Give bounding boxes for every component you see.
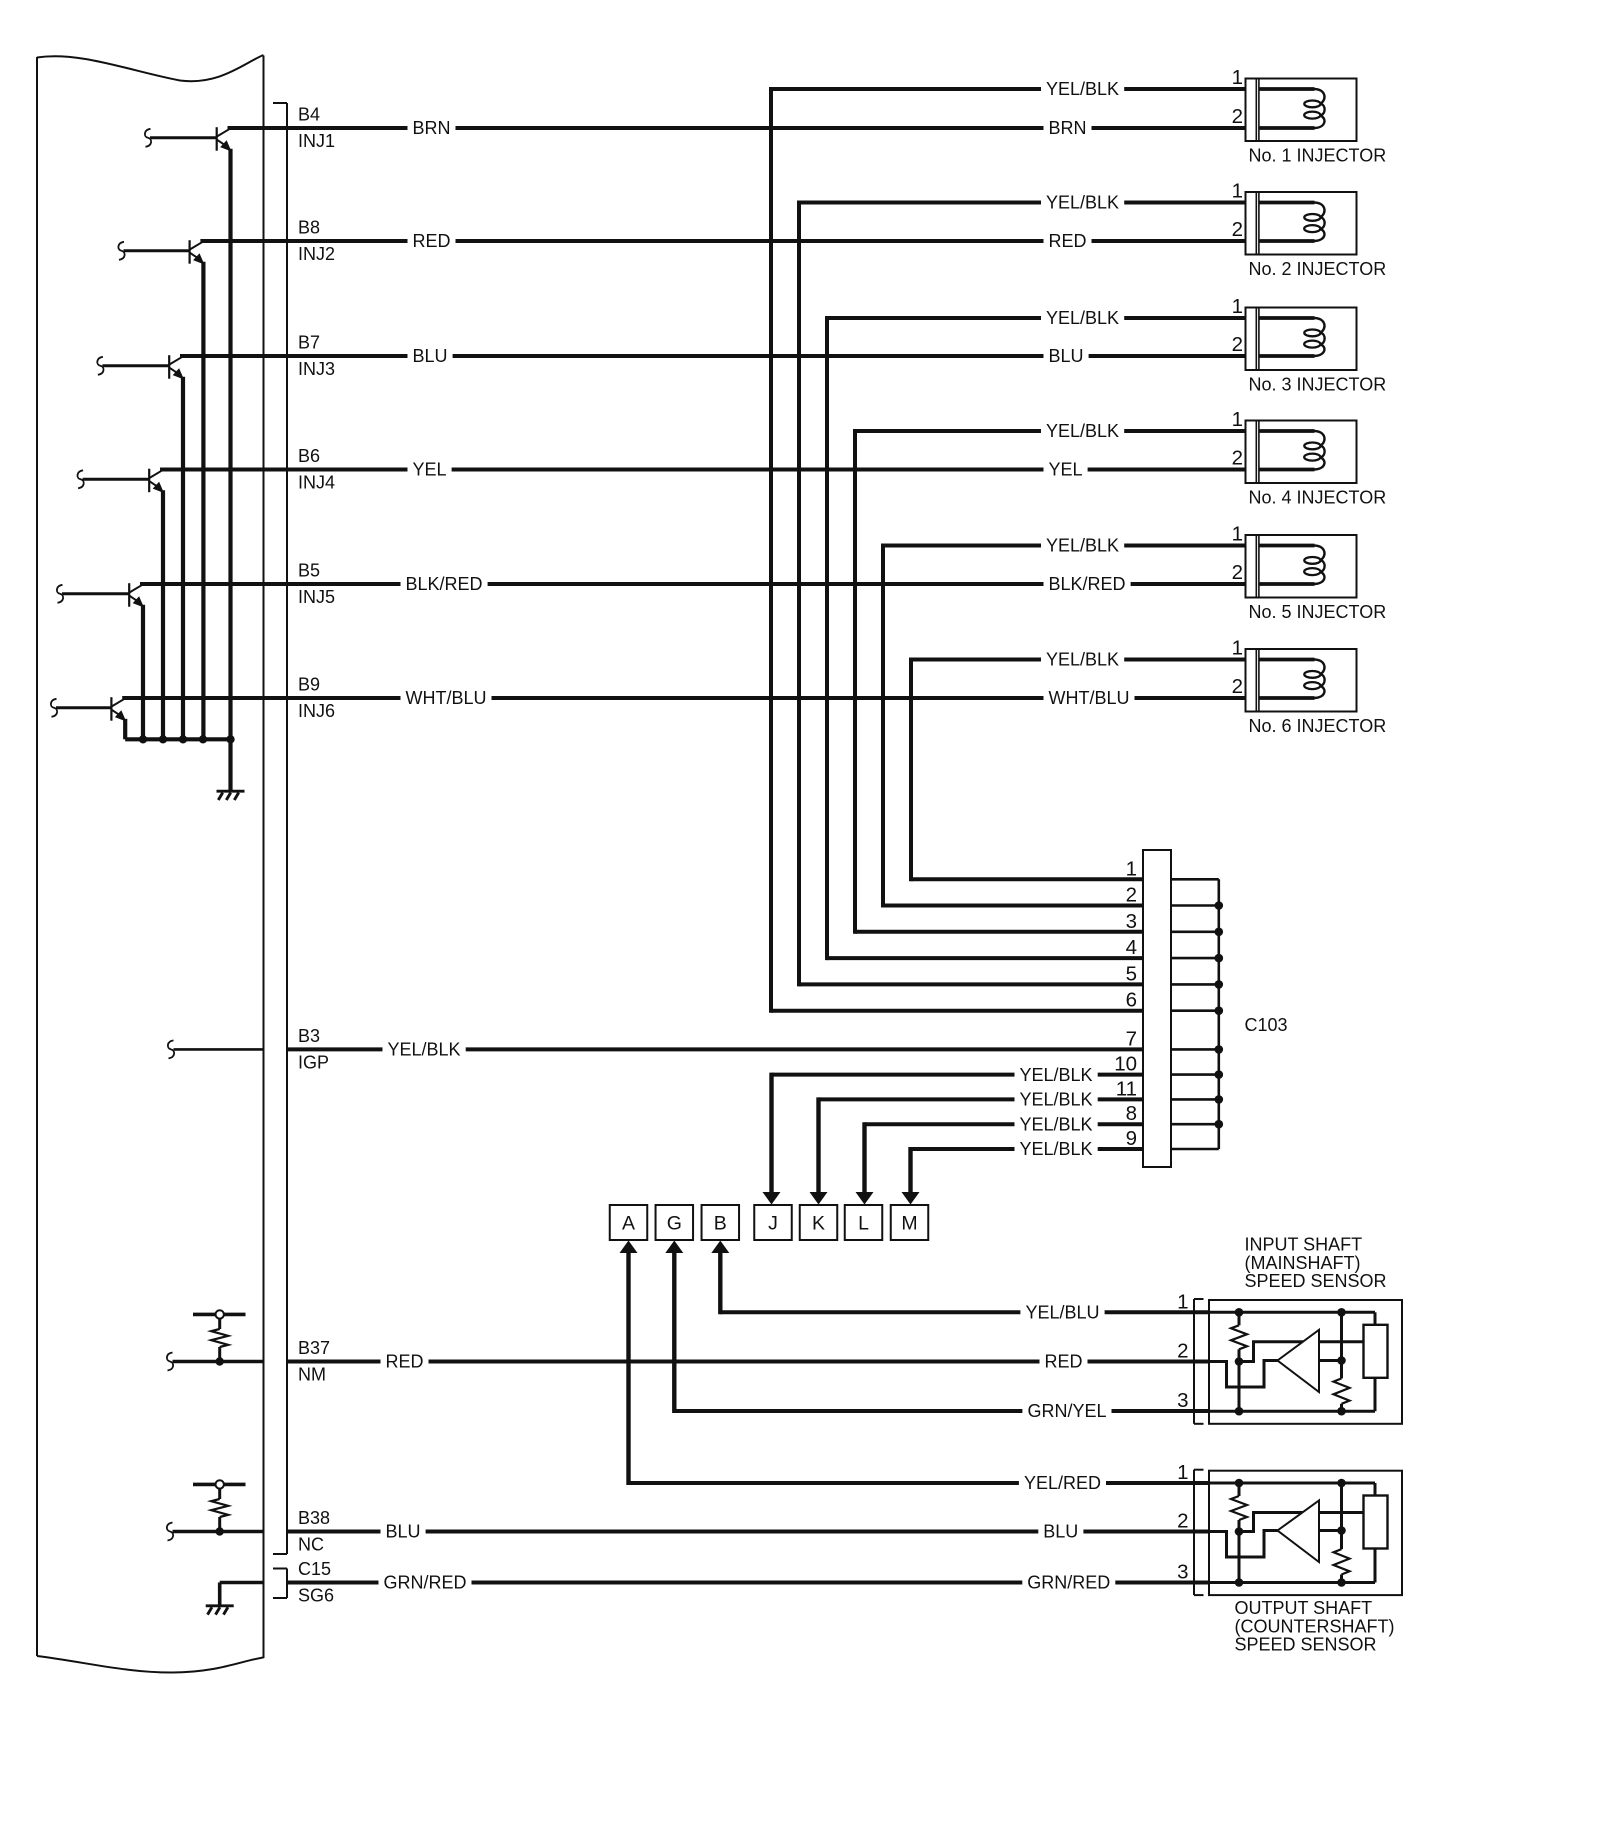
svg-text:INJ3: INJ3 xyxy=(298,359,335,379)
svg-text:1: 1 xyxy=(1232,295,1243,318)
wire B37 RED (ECU pin B37 to input shaft speed sensor pin 2) xyxy=(287,1351,1209,1372)
svg-text:WHT/BLU: WHT/BLU xyxy=(406,688,487,708)
wire YEL/BLK (No.3 injector pin 1 to C103 pin 4) xyxy=(827,308,1246,961)
pin label B4/INJ1 xyxy=(298,105,335,152)
svg-text:INJ5: INJ5 xyxy=(298,587,335,607)
input shaft sensor bias resistor (left zigzag) xyxy=(1231,1312,1247,1411)
svg-text:BLK/RED: BLK/RED xyxy=(1049,574,1126,594)
svg-text:2: 2 xyxy=(1232,105,1243,128)
svg-text:IGP: IGP xyxy=(298,1052,329,1072)
wire SG6 inside ECU xyxy=(220,1581,264,1585)
ECU connector C bracket (pin C15) xyxy=(273,1569,287,1599)
pin numbers injector No.6 xyxy=(1232,637,1243,699)
svg-text:YEL/RED: YEL/RED xyxy=(1024,1473,1101,1493)
svg-text:YEL/BLK: YEL/BLK xyxy=(1046,193,1119,213)
svg-text:5: 5 xyxy=(1126,962,1137,985)
svg-text:No. 5 INJECTOR: No. 5 INJECTOR xyxy=(1249,602,1387,622)
pin label C15/SG6 xyxy=(298,1559,334,1606)
injector No.1 (solenoid coil) xyxy=(1246,79,1357,142)
svg-text:BRN: BRN xyxy=(1049,118,1087,138)
junction dots on emitter bus xyxy=(139,735,235,743)
svg-text:3: 3 xyxy=(1126,910,1137,933)
svg-text:YEL: YEL xyxy=(413,460,447,480)
transistor Q3 (injector 3 driver, NPN) xyxy=(97,355,184,739)
svg-text:B38: B38 xyxy=(298,1508,330,1528)
input shaft sensor junction dots xyxy=(1235,1308,1346,1415)
label INPUT SHAFT (MAINSHAFT) SPEED SENSOR xyxy=(1245,1235,1387,1291)
label No. 3 INJECTOR xyxy=(1249,375,1387,395)
output shaft sensor amplifier (op-amp triangle) xyxy=(1278,1501,1320,1563)
output shaft sensor connector bracket xyxy=(1194,1470,1204,1595)
svg-text:J: J xyxy=(768,1213,778,1235)
node A (off-page connector box) xyxy=(610,1205,648,1240)
ECU control module body (partial outline, torn edges) xyxy=(37,55,264,1673)
svg-text:INJ1: INJ1 xyxy=(298,131,335,151)
input shaft sensor connector bracket xyxy=(1194,1299,1204,1424)
svg-text:2: 2 xyxy=(1232,675,1243,698)
pin label B9/INJ6 xyxy=(298,675,335,722)
svg-text:SPEED SENSOR: SPEED SENSOR xyxy=(1235,1635,1377,1655)
pin label B5/INJ5 xyxy=(298,561,335,608)
wire GRN/YEL (node G to input shaft speed sensor pin 3) xyxy=(665,1241,1209,1422)
svg-text:YEL/BLK: YEL/BLK xyxy=(1046,421,1119,441)
svg-text:BLU: BLU xyxy=(1043,1522,1078,1542)
svg-text:YEL/BLK: YEL/BLK xyxy=(1046,650,1119,670)
svg-text:RED: RED xyxy=(386,1352,424,1372)
wire B4 BRN (ECU pin B4 to No.1 injector pin 2) xyxy=(228,118,1246,139)
svg-text:GRN/YEL: GRN/YEL xyxy=(1027,1401,1106,1421)
svg-text:No. 6 INJECTOR: No. 6 INJECTOR xyxy=(1249,716,1387,736)
svg-text:OUTPUT SHAFT: OUTPUT SHAFT xyxy=(1235,1598,1373,1618)
wire IGP inside ECU (with break symbol) xyxy=(168,1040,264,1058)
svg-text:BLU: BLU xyxy=(413,346,448,366)
wire C15 GRN/RED (ECU pin C15 to output shaft speed sensor pin 3) xyxy=(287,1572,1209,1593)
injector No.2 (solenoid coil) xyxy=(1246,192,1357,255)
label No. 5 INJECTOR xyxy=(1249,602,1387,622)
injector No.4 (solenoid coil) xyxy=(1246,421,1357,484)
svg-text:BRN: BRN xyxy=(413,118,451,138)
svg-text:BLU: BLU xyxy=(1049,346,1084,366)
svg-text:11: 11 xyxy=(1116,1077,1137,1100)
pin numbers C103 xyxy=(1114,857,1137,1150)
svg-text:SPEED SENSOR: SPEED SENSOR xyxy=(1245,1271,1387,1291)
input shaft speed sensor body xyxy=(1209,1300,1402,1424)
pin numbers injector No.4 xyxy=(1232,408,1243,470)
wire B5 BLK/RED (ECU pin B5 to No.5 injector pin 2) xyxy=(140,574,1246,595)
label No. 2 INJECTOR xyxy=(1249,259,1387,279)
svg-text:YEL: YEL xyxy=(1049,460,1083,480)
svg-text:SG6: SG6 xyxy=(298,1586,334,1606)
svg-text:YEL/BLK: YEL/BLK xyxy=(1020,1114,1093,1134)
svg-text:M: M xyxy=(901,1213,917,1235)
wire NC inside ECU (with break symbol) xyxy=(167,1523,264,1541)
svg-text:YEL/BLK: YEL/BLK xyxy=(1046,308,1119,328)
transistor Q2 (injector 2 driver, NPN) xyxy=(118,240,204,739)
transistor Q4 (injector 4 driver, NPN) xyxy=(77,469,164,740)
svg-text:1: 1 xyxy=(1232,408,1243,431)
input shaft sensor pin numbers xyxy=(1177,1290,1188,1412)
svg-text:INJ2: INJ2 xyxy=(298,244,335,264)
wire YEL/BLK (No.1 injector pin 1 to C103 pin 6) xyxy=(771,79,1246,1013)
svg-text:B7: B7 xyxy=(298,333,320,353)
svg-text:B37: B37 xyxy=(298,1338,330,1358)
junction dots on C103 bus xyxy=(1215,901,1224,1128)
svg-text:BLU: BLU xyxy=(386,1522,421,1542)
svg-text:No. 3 INJECTOR: No. 3 INJECTOR xyxy=(1249,375,1387,395)
svg-text:YEL/BLK: YEL/BLK xyxy=(388,1040,461,1060)
svg-text:YEL/BLK: YEL/BLK xyxy=(1046,79,1119,99)
transistor Q5 (injector 5 driver, NPN) xyxy=(57,583,144,739)
svg-text:K: K xyxy=(812,1213,825,1235)
svg-text:B6: B6 xyxy=(298,446,320,466)
pin numbers injector No.1 xyxy=(1232,66,1243,128)
wire B38 BLU (ECU pin B38 to output shaft speed sensor pin 2) xyxy=(287,1521,1209,1542)
output shaft sensor internal supply/ground wires xyxy=(1209,1483,1375,1583)
input shaft sensor amplifier input wire (pin 2 path) xyxy=(1209,1361,1278,1388)
svg-text:6: 6 xyxy=(1126,989,1137,1012)
wire C103 common bus vertical xyxy=(1218,879,1221,1149)
svg-text:2: 2 xyxy=(1126,884,1137,907)
svg-text:YEL/BLK: YEL/BLK xyxy=(1020,1090,1093,1110)
svg-text:2: 2 xyxy=(1232,561,1243,584)
label C103 xyxy=(1245,1015,1288,1035)
injector No.6 (solenoid coil) xyxy=(1246,649,1357,712)
svg-text:4: 4 xyxy=(1126,936,1137,959)
pin label B8/INJ2 xyxy=(298,218,335,265)
resistor (ECU pull-up on NC) with supply tick xyxy=(193,1480,246,1536)
svg-text:2: 2 xyxy=(1232,333,1243,356)
node L (off-page connector box) xyxy=(845,1205,883,1240)
wire B7 BLU (ECU pin B7 to No.3 injector pin 2) xyxy=(180,346,1246,367)
svg-text:INPUT SHAFT: INPUT SHAFT xyxy=(1245,1235,1363,1255)
svg-text:C103: C103 xyxy=(1245,1015,1288,1035)
wire YEL/BLK (No.5 injector pin 1 to C103 pin 2) xyxy=(883,535,1246,908)
output shaft sensor load resistor (box symbol) xyxy=(1364,1496,1388,1549)
svg-text:3: 3 xyxy=(1177,1389,1188,1412)
resistor (ECU pull-up on NM) with supply tick xyxy=(193,1310,246,1366)
svg-text:B3: B3 xyxy=(298,1026,320,1046)
pin label B3/IGP xyxy=(298,1026,329,1073)
svg-text:NM: NM xyxy=(298,1365,326,1385)
ECU connector B bracket (pins B3-B38) xyxy=(273,103,287,1554)
svg-text:YEL/BLK: YEL/BLK xyxy=(1046,536,1119,556)
input shaft sensor internal supply/ground wires xyxy=(1209,1312,1375,1411)
injector No.5 (solenoid coil) xyxy=(1246,535,1357,598)
svg-text:C15: C15 xyxy=(298,1559,331,1579)
svg-text:GRN/RED: GRN/RED xyxy=(384,1573,467,1593)
pin label B6/INJ4 xyxy=(298,446,335,493)
svg-text:B8: B8 xyxy=(298,218,320,238)
wire YEL/BLK (C103 pin 11 to node K, arrow into K) xyxy=(810,1089,1144,1205)
svg-text:No. 2 INJECTOR: No. 2 INJECTOR xyxy=(1249,259,1387,279)
label No. 4 INJECTOR xyxy=(1249,488,1387,508)
pin label B38/NC xyxy=(298,1508,330,1555)
wire YEL/BLU (node B to input shaft speed sensor pin 1) xyxy=(711,1241,1209,1323)
svg-text:INJ6: INJ6 xyxy=(298,701,335,721)
svg-text:2: 2 xyxy=(1177,1510,1188,1533)
wire YEL/RED (node A to output shaft speed sensor pin 1) xyxy=(620,1241,1210,1494)
node M (off-page connector box) xyxy=(891,1205,929,1240)
svg-text:NC: NC xyxy=(298,1535,324,1555)
output shaft sensor amplifier input wire (pin 2 path) xyxy=(1209,1531,1278,1558)
svg-text:No. 1 INJECTOR: No. 1 INJECTOR xyxy=(1249,146,1387,166)
svg-text:1: 1 xyxy=(1177,1290,1188,1313)
svg-text:1: 1 xyxy=(1232,637,1243,660)
svg-text:9: 9 xyxy=(1126,1127,1137,1150)
wire B9 WHT/BLU (ECU pin B9 to No.6 injector pin 2) xyxy=(122,688,1245,709)
svg-text:(COUNTERSHAFT): (COUNTERSHAFT) xyxy=(1235,1616,1395,1636)
pin numbers injector No.2 xyxy=(1232,180,1243,242)
wire YEL/BLK (C103 pin 10 to node J, arrow into J) xyxy=(763,1064,1144,1204)
injector No.3 (solenoid coil) xyxy=(1246,308,1357,371)
wire YEL/BLK (No.4 injector pin 1 to C103 pin 3) xyxy=(855,421,1246,934)
label No. 6 INJECTOR xyxy=(1249,716,1387,736)
output shaft sensor junction dots xyxy=(1235,1479,1346,1587)
svg-text:3: 3 xyxy=(1177,1561,1188,1584)
wire YEL/BLK (No.6 injector pin 1 to C103 pin 1) xyxy=(911,649,1246,881)
svg-text:YEL/BLK: YEL/BLK xyxy=(1020,1065,1093,1085)
pin label B37/NM xyxy=(298,1338,330,1385)
svg-text:8: 8 xyxy=(1126,1102,1137,1125)
wire NM inside ECU (with break symbol) xyxy=(167,1353,264,1371)
svg-text:YEL/BLU: YEL/BLU xyxy=(1025,1303,1099,1323)
label OUTPUT SHAFT (COUNTERSHAFT) SPEED SENSOR xyxy=(1235,1598,1395,1655)
svg-text:BLK/RED: BLK/RED xyxy=(406,574,483,594)
output shaft sensor output wire and pull-down resistor xyxy=(1319,1483,1350,1583)
pin numbers injector No.5 xyxy=(1232,523,1243,585)
output shaft sensor wire node to load resistor xyxy=(1239,1513,1364,1532)
connector C103 bar xyxy=(1143,850,1171,1167)
svg-text:RED: RED xyxy=(1049,231,1087,251)
output shaft sensor bias resistor (left zigzag) xyxy=(1231,1483,1247,1583)
node B (off-page connector box) xyxy=(702,1205,740,1240)
svg-text:B5: B5 xyxy=(298,561,320,581)
ECU emitter common bus wire xyxy=(125,737,230,741)
transistor Q6 (injector 6 driver, NPN) xyxy=(51,697,126,739)
svg-text:L: L xyxy=(858,1213,869,1235)
transistor Q1 (injector 1 driver, NPN) xyxy=(145,127,232,739)
label No. 1 INJECTOR xyxy=(1249,146,1387,166)
wire B6 YEL (ECU pin B6 to No.4 injector pin 2) xyxy=(160,459,1246,480)
node G (off-page connector box) xyxy=(656,1205,694,1240)
svg-text:2: 2 xyxy=(1177,1340,1188,1363)
wire B3 YEL/BLK (ECU pin B3 to C103 pin 7) xyxy=(287,1039,1143,1060)
input shaft sensor amplifier (op-amp triangle) xyxy=(1278,1330,1320,1392)
output shaft speed sensor body xyxy=(1209,1471,1402,1595)
svg-text:1: 1 xyxy=(1126,857,1137,880)
wire YEL/BLK (C103 pin 8 to node L, arrow into L) xyxy=(856,1114,1144,1205)
svg-text:A: A xyxy=(622,1213,635,1235)
svg-text:1: 1 xyxy=(1232,523,1243,546)
svg-text:No. 4 INJECTOR: No. 4 INJECTOR xyxy=(1249,488,1387,508)
svg-text:B4: B4 xyxy=(298,105,320,125)
svg-text:2: 2 xyxy=(1232,447,1243,470)
svg-text:YEL/BLK: YEL/BLK xyxy=(1020,1139,1093,1159)
svg-text:RED: RED xyxy=(1044,1352,1082,1372)
input shaft sensor load resistor (box symbol) xyxy=(1364,1325,1388,1378)
svg-text:7: 7 xyxy=(1126,1027,1137,1050)
wire YEL/BLK (No.2 injector pin 1 to C103 pin 5) xyxy=(799,192,1246,986)
wire B8 RED (ECU pin B8 to No.2 injector pin 2) xyxy=(200,231,1245,252)
svg-text:B9: B9 xyxy=(298,675,320,695)
node K (off-page connector box) xyxy=(800,1205,838,1240)
ground (ECU internal, injector drivers) xyxy=(217,739,245,800)
svg-text:WHT/BLU: WHT/BLU xyxy=(1049,688,1130,708)
input shaft sensor wire node to load resistor xyxy=(1239,1342,1364,1362)
svg-text:B: B xyxy=(714,1213,727,1235)
svg-text:1: 1 xyxy=(1232,66,1243,89)
output shaft sensor pin numbers xyxy=(1177,1461,1188,1584)
svg-text:(MAINSHAFT): (MAINSHAFT) xyxy=(1245,1253,1361,1273)
pin label B7/INJ3 xyxy=(298,333,335,380)
svg-text:1: 1 xyxy=(1232,180,1243,203)
wires C103 pins to common bus xyxy=(1171,879,1219,1149)
ground (sensor ground SG6 inside ECU) xyxy=(206,1583,234,1615)
svg-text:2: 2 xyxy=(1232,218,1243,241)
input shaft sensor output wire and pull-down resistor xyxy=(1319,1312,1350,1411)
svg-text:RED: RED xyxy=(413,231,451,251)
wire YEL/BLK (C103 pin 9 to node M, arrow into M) xyxy=(902,1139,1144,1205)
pin numbers injector No.3 xyxy=(1232,295,1243,356)
svg-text:GRN/RED: GRN/RED xyxy=(1027,1573,1110,1593)
svg-text:1: 1 xyxy=(1177,1461,1188,1484)
svg-text:INJ4: INJ4 xyxy=(298,473,335,493)
svg-text:G: G xyxy=(667,1213,682,1235)
svg-text:10: 10 xyxy=(1114,1053,1137,1076)
node J (off-page connector box) xyxy=(754,1205,792,1240)
